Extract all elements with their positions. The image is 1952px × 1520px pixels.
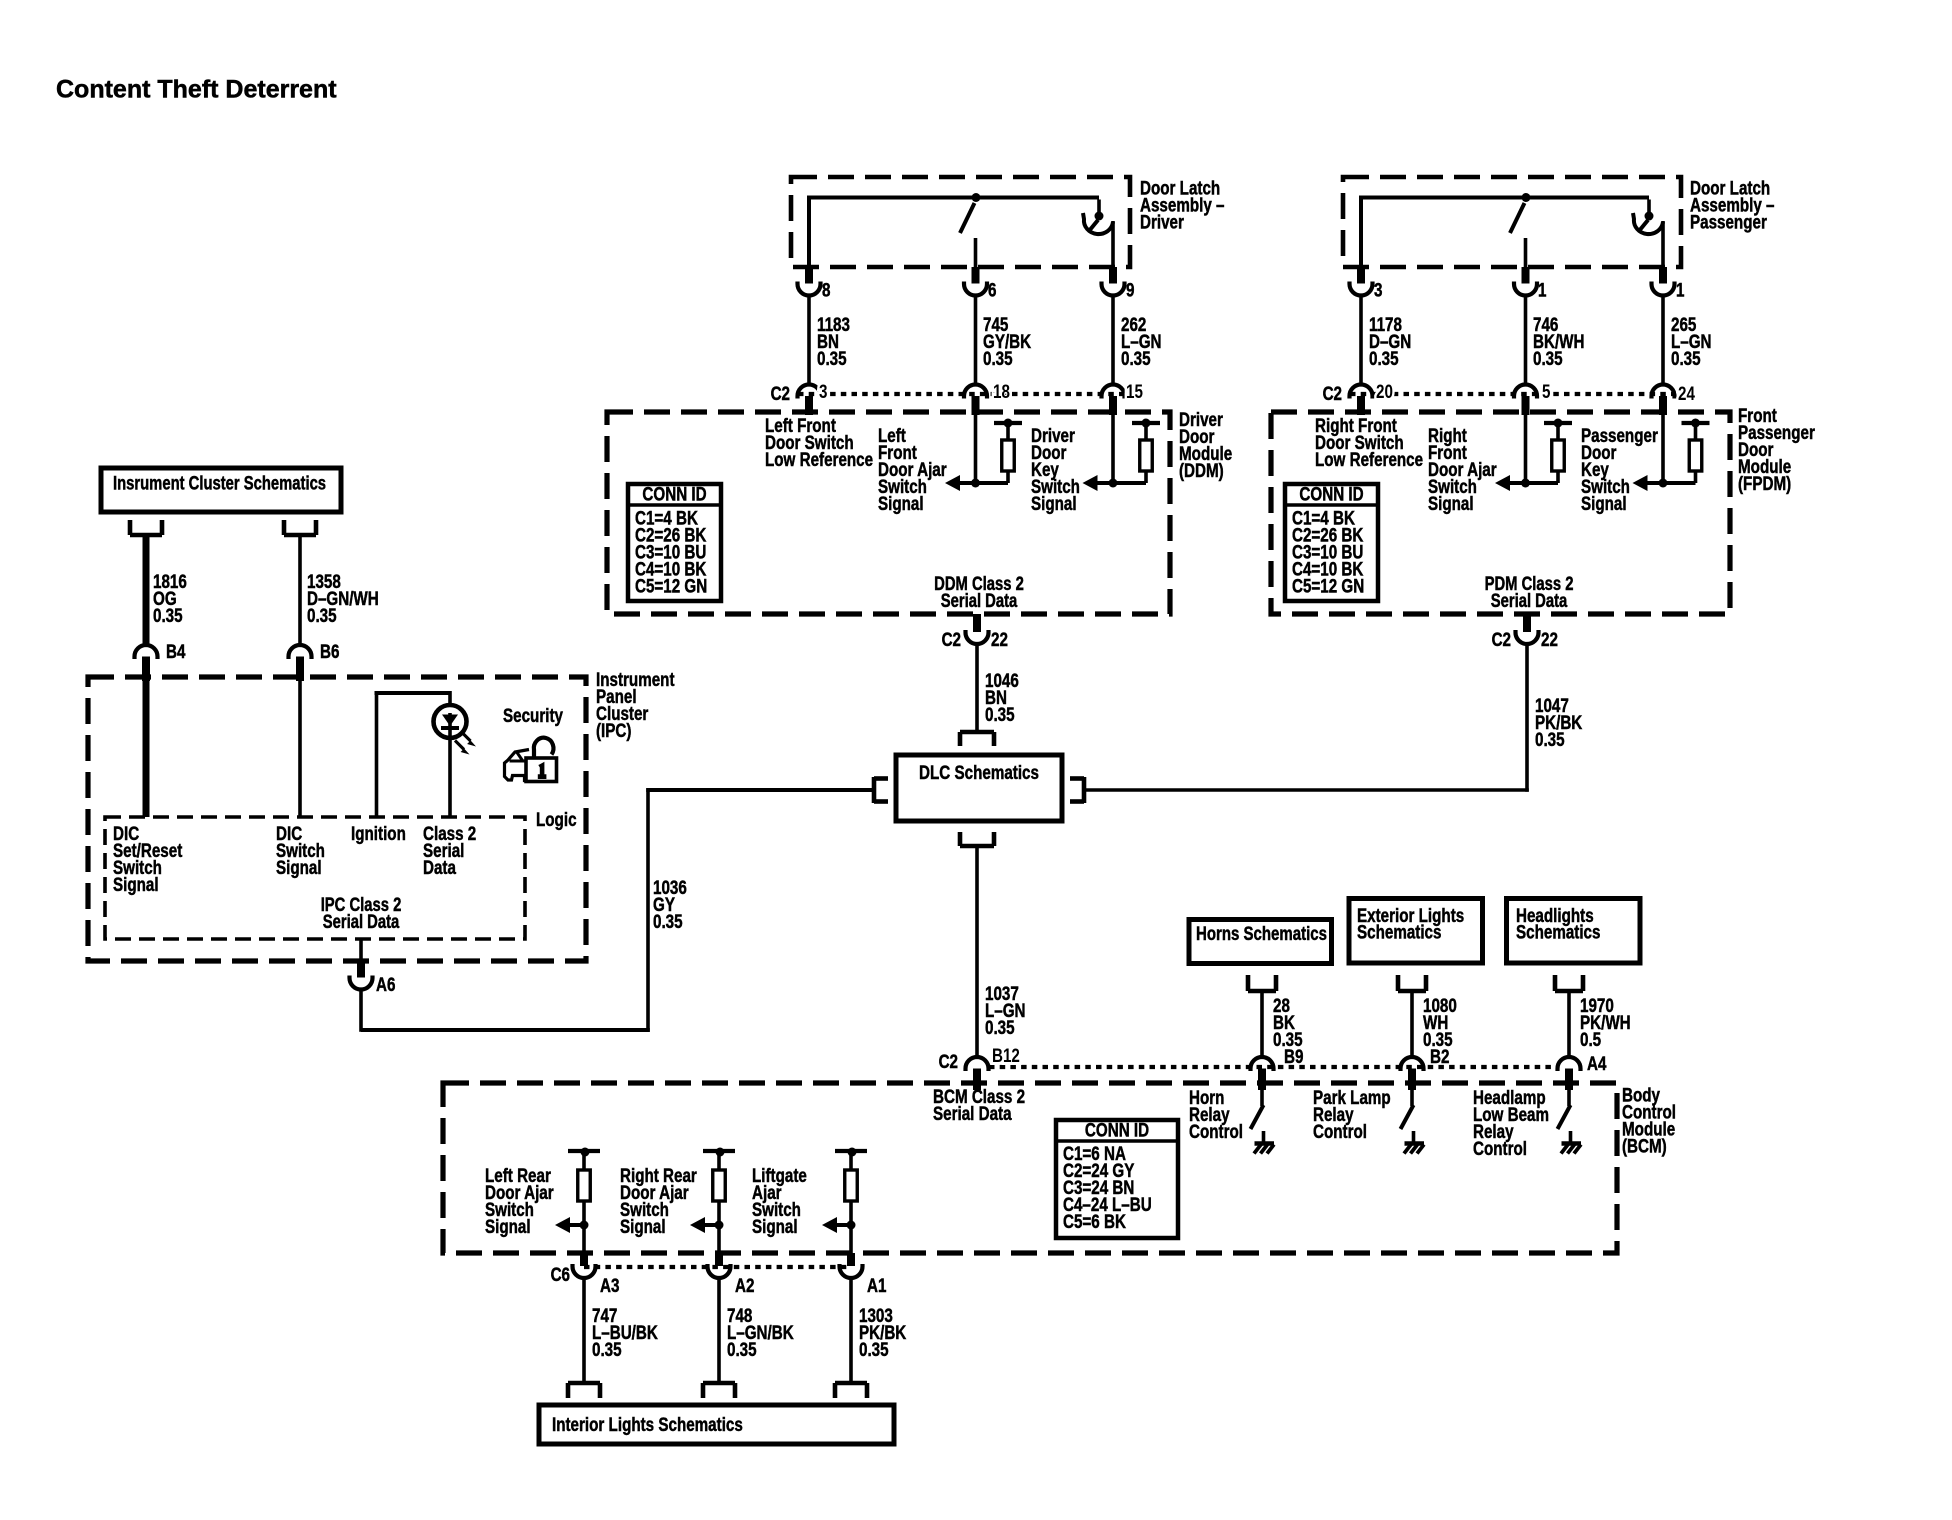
svg-text:0.35: 0.35: [1671, 347, 1701, 369]
svg-text:A6: A6: [376, 973, 396, 995]
svg-text:C2: C2: [942, 628, 962, 650]
wire 1970: [1567, 991, 1571, 1058]
svg-text:3: 3: [1374, 279, 1383, 301]
key switch (driver): [1097, 200, 1101, 213]
svg-text:B9: B9: [1284, 1045, 1304, 1067]
svg-text:Control: Control: [1473, 1137, 1527, 1159]
connector C6 pin A3: [580, 1253, 588, 1266]
svg-text:(FPDM): (FPDM): [1738, 472, 1791, 494]
svg-text:B6: B6: [320, 640, 340, 662]
bracket above interior box (A3): [568, 1381, 600, 1386]
bracket under exterior box: [1398, 989, 1426, 994]
LED wire down: [448, 738, 452, 818]
svg-text:B12: B12: [992, 1044, 1020, 1066]
wire 1046: [975, 644, 979, 733]
wire: latch driver top horizontal: [809, 196, 1099, 200]
wire pin15 into DDM: [1111, 415, 1115, 483]
key switch (passenger): [1647, 200, 1651, 213]
svg-text:C2: C2: [1492, 628, 1512, 650]
door latch assembly passenger box: [1343, 177, 1681, 267]
bracket under horns box: [1248, 989, 1276, 994]
svg-text:C6: C6: [551, 1263, 571, 1285]
connector C2 pin 22 (DDM exit): [973, 614, 981, 632]
connector C2 pin 3: [798, 385, 821, 399]
park lamp relay control switch: [1410, 1090, 1414, 1106]
wire 1037: [975, 846, 979, 1058]
svg-text:C2: C2: [771, 382, 791, 404]
svg-text:Low Reference: Low Reference: [765, 448, 873, 470]
svg-text:Signal: Signal: [1581, 492, 1627, 514]
Instrument Cluster Schematics box: [101, 468, 341, 512]
svg-text:C5=12 GN: C5=12 GN: [1292, 575, 1364, 597]
connector pin 9: [1109, 267, 1117, 284]
connector A6: [357, 961, 365, 978]
connector B6: [289, 645, 312, 659]
security icon (car + padlock): [505, 750, 530, 781]
CONN ID table (BCM): [1056, 1120, 1178, 1238]
svg-text:20: 20: [1376, 380, 1393, 402]
svg-text:8: 8: [822, 279, 831, 301]
svg-text:(IPC): (IPC): [596, 719, 631, 741]
BCM connector dotted line: [989, 1065, 1557, 1069]
wire pin5 into FPDM: [1524, 415, 1528, 483]
pull-up resistor + arrow (door ajar, FPDM): [1544, 421, 1572, 425]
wire 1358: [298, 535, 302, 645]
svg-text:0.35: 0.35: [859, 1338, 889, 1360]
LED emission arrows: [462, 732, 471, 741]
CONN ID table (FPDM): [1285, 484, 1378, 601]
svg-text:(DDM): (DDM): [1179, 459, 1224, 481]
connector C6 pin A2: [715, 1253, 723, 1266]
BCM dashed box: [443, 1083, 1617, 1253]
wire: latch passenger left drop pin 3: [1359, 196, 1363, 268]
right rear door ajar switch structure: [703, 1149, 735, 1153]
FPDM dashed box: [1271, 412, 1730, 614]
door ajar switch (passenger): [1522, 193, 1531, 202]
svg-text:Signal: Signal: [1031, 492, 1077, 514]
wire 1047 vertical: [1525, 644, 1529, 792]
svg-text:Signal: Signal: [485, 1215, 531, 1237]
wire B4 into logic (thick): [143, 681, 150, 817]
svg-text:22: 22: [991, 628, 1008, 650]
svg-text:Insrument Cluster Schematics: Insrument Cluster Schematics: [113, 471, 326, 494]
svg-text:C2: C2: [939, 1050, 959, 1072]
svg-text:Serial Data: Serial Data: [941, 590, 1018, 611]
ignition wire loop: [375, 691, 379, 817]
svg-text:Serial Data: Serial Data: [933, 1102, 1012, 1124]
connector C2 pin 20: [1350, 385, 1373, 399]
bracket above interior box (A2): [703, 1381, 735, 1386]
DLC left bracket: [872, 777, 877, 803]
svg-text:CONN ID: CONN ID: [1299, 483, 1363, 505]
connector row C2 (FPDM) dotted line: [1350, 392, 1675, 396]
svg-text:Signal: Signal: [1428, 492, 1474, 514]
Interior Lights Schematics box: [539, 1405, 894, 1444]
wire: latch driver left drop pin 8: [807, 196, 811, 268]
svg-text:Signal: Signal: [752, 1215, 798, 1237]
bracket above interior box (A1): [835, 1381, 867, 1386]
svg-text:Control: Control: [1313, 1120, 1367, 1142]
svg-text:0.35: 0.35: [817, 347, 847, 369]
wire 28: [1260, 991, 1264, 1058]
svg-text:0.35: 0.35: [653, 910, 683, 932]
svg-text:C5=12 GN: C5=12 GN: [635, 575, 707, 597]
svg-text:3: 3: [819, 380, 828, 402]
connector C2 pin 18: [964, 385, 987, 399]
IPC dashed box: [88, 677, 586, 961]
svg-text:Signal: Signal: [276, 856, 322, 878]
Headlights Schematics box: [1507, 899, 1641, 964]
DLC right bracket: [1082, 777, 1087, 803]
wire 1816 (thick): [143, 535, 150, 645]
svg-text:B2: B2: [1430, 1045, 1450, 1067]
svg-text:Serial Data: Serial Data: [323, 911, 400, 932]
svg-text:Ignition: Ignition: [351, 822, 406, 844]
connector pin 6: [972, 267, 980, 284]
svg-text:(BCM): (BCM): [1622, 1135, 1667, 1157]
svg-text:Serial Data: Serial Data: [1491, 590, 1568, 611]
wire A6 exit: [359, 939, 363, 961]
wire 1036 path: [359, 989, 363, 1032]
connector C2 pin 5: [1514, 385, 1537, 399]
pull-up resistor + arrow (key switch, DDM): [1132, 421, 1160, 425]
connector pin 8: [805, 267, 813, 284]
connector C6 pin A1: [847, 1253, 855, 1266]
connector pin 3 (passenger latch): [1357, 267, 1365, 284]
svg-text:0.35: 0.35: [1369, 347, 1399, 369]
connector C2 pin B12: [966, 1057, 989, 1071]
svg-text:0.35: 0.35: [1535, 728, 1565, 750]
svg-text:Driver: Driver: [1140, 211, 1184, 233]
pull-up resistor + arrow (door ajar, DDM): [994, 421, 1022, 425]
svg-text:1: 1: [1538, 279, 1547, 301]
connector C2 pin 15: [1102, 385, 1125, 399]
svg-text:C5=6 BK: C5=6 BK: [1063, 1210, 1126, 1232]
svg-text:0.5: 0.5: [1580, 1028, 1601, 1050]
liftgate ajar switch structure: [835, 1149, 867, 1153]
svg-text:C2: C2: [1323, 382, 1343, 404]
headlamp low beam relay control switch: [1567, 1090, 1571, 1106]
svg-text:5: 5: [1542, 380, 1551, 402]
svg-text:0.35: 0.35: [727, 1338, 757, 1360]
svg-text:1: 1: [1676, 279, 1685, 301]
Exterior Lights Schematics box: [1349, 899, 1483, 964]
left rear door ajar switch structure: [568, 1149, 600, 1153]
svg-text:0.35: 0.35: [983, 347, 1013, 369]
svg-text:Data: Data: [423, 856, 456, 878]
DLC bottom bracket: [960, 844, 994, 849]
wire 1080: [1410, 991, 1414, 1058]
connector B9: [1251, 1057, 1274, 1071]
connector B2: [1401, 1057, 1424, 1071]
bracket under cluster box (left): [130, 533, 162, 538]
svg-text:B4: B4: [166, 640, 186, 662]
connector A4: [1558, 1057, 1581, 1071]
svg-text:Signal: Signal: [620, 1215, 666, 1237]
svg-text:0.35: 0.35: [1533, 347, 1563, 369]
C6 connector dotted line: [584, 1265, 851, 1269]
svg-text:Low Reference: Low Reference: [1315, 448, 1423, 470]
svg-text:DLC Schematics: DLC Schematics: [919, 761, 1039, 783]
pull-up resistor + arrow (key switch, FPDM): [1682, 421, 1710, 425]
svg-text:Control: Control: [1189, 1120, 1243, 1142]
bracket under cluster box (right): [284, 533, 316, 538]
wire B6 into logic: [298, 681, 302, 817]
door ajar switch (driver): [972, 193, 981, 202]
svg-text:22: 22: [1541, 628, 1558, 650]
connector C2 pin 24: [1652, 385, 1675, 399]
horn relay control switch: [1260, 1090, 1264, 1106]
svg-text:Content Theft Deterrent: Content Theft Deterrent: [56, 76, 337, 104]
svg-text:A2: A2: [735, 1274, 755, 1296]
svg-text:15: 15: [1126, 380, 1143, 402]
svg-text:Logic: Logic: [536, 808, 577, 830]
Horns Schematics box: [1189, 920, 1332, 964]
svg-text:CONN ID: CONN ID: [1085, 1119, 1149, 1141]
svg-text:Passenger: Passenger: [1690, 211, 1767, 233]
CONN ID table (DDM): [628, 484, 721, 601]
svg-text:A4: A4: [1587, 1052, 1607, 1074]
svg-text:Signal: Signal: [878, 492, 924, 514]
svg-text:0.35: 0.35: [153, 604, 183, 626]
svg-text:Interior Lights Schematics: Interior Lights Schematics: [552, 1413, 743, 1435]
wire: latch passenger top horizontal: [1361, 196, 1649, 200]
svg-text:CONN ID: CONN ID: [642, 483, 706, 505]
wire pin24 into FPDM: [1661, 415, 1665, 483]
svg-text:0.35: 0.35: [985, 703, 1015, 725]
svg-text:18: 18: [993, 380, 1010, 402]
svg-text:6: 6: [988, 279, 997, 301]
svg-text:24: 24: [1678, 382, 1695, 404]
svg-text:Signal: Signal: [113, 873, 159, 895]
connector B4: [135, 645, 158, 659]
svg-text:0.35: 0.35: [592, 1338, 622, 1360]
DDM dashed box: [607, 412, 1170, 614]
connector C2 pin 22 (FPDM exit): [1523, 614, 1531, 632]
svg-text:0.35: 0.35: [1121, 347, 1151, 369]
svg-text:0.35: 0.35: [985, 1016, 1015, 1038]
wire pin18 into DDM: [974, 415, 978, 483]
DLC box: [896, 755, 1062, 821]
security LED: [434, 705, 467, 738]
svg-text:Security: Security: [503, 704, 563, 726]
svg-text:Schematics: Schematics: [1516, 921, 1600, 943]
svg-text:A3: A3: [600, 1274, 620, 1296]
connector pin 1 (key, passenger latch): [1659, 267, 1667, 284]
svg-text:Horns Schematics: Horns Schematics: [1196, 922, 1327, 944]
connector row C2 (DDM) dotted line: [798, 392, 1125, 396]
connector pin 1 (ajar, passenger latch): [1522, 267, 1530, 284]
svg-text:9: 9: [1126, 279, 1135, 301]
door latch assembly driver box: [791, 177, 1130, 267]
Logic dashed box: [105, 817, 525, 939]
svg-text:A1: A1: [867, 1274, 887, 1296]
svg-text:0.35: 0.35: [307, 604, 337, 626]
svg-text:Schematics: Schematics: [1357, 921, 1441, 943]
wire 1047 horizontal to DLC: [1084, 788, 1529, 792]
DLC top bracket: [960, 730, 994, 735]
bracket under headlights box: [1555, 989, 1583, 994]
